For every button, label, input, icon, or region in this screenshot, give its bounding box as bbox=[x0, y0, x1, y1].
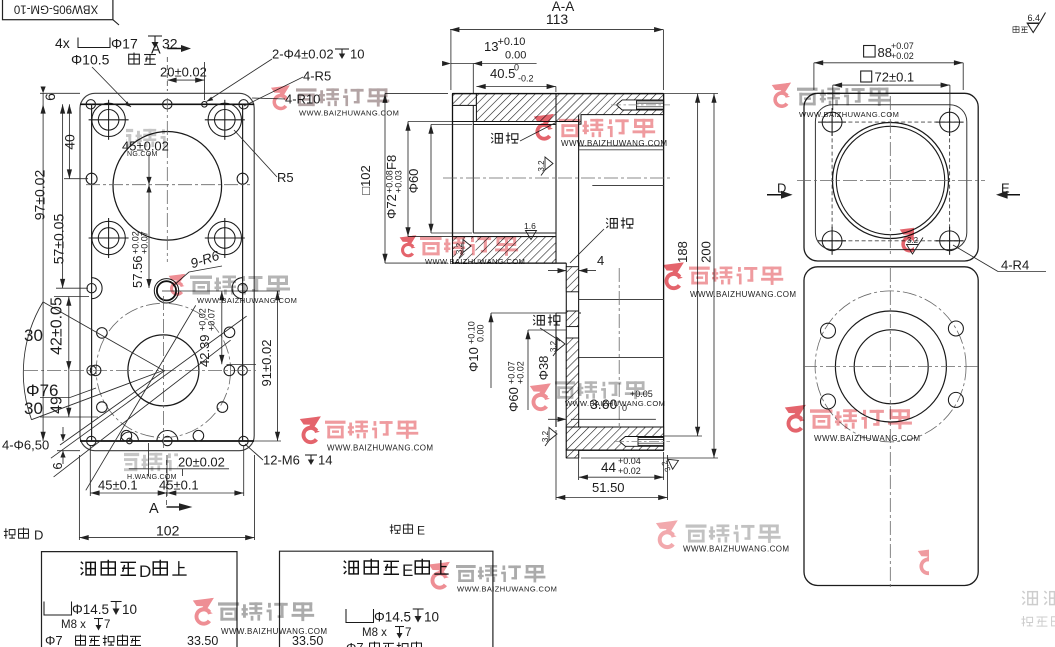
upper flange bbox=[804, 93, 978, 261]
57.56 vertical dim text bbox=[130, 231, 150, 288]
svg-text:XBW905-GM-10: XBW905-GM-10 bbox=[14, 3, 98, 15]
svg-text:Φ14.5: Φ14.5 bbox=[374, 610, 411, 625]
bottom edge holes bbox=[87, 436, 96, 445]
bottom hatch band w slot bbox=[566, 427, 663, 450]
svg-text:WWW.BAIZHUWANG.COM: WWW.BAIZHUWANG.COM bbox=[425, 257, 525, 266]
svg-text:A: A bbox=[149, 501, 159, 517]
bottom-left hatch block bbox=[453, 237, 557, 264]
svg-text:51.50: 51.50 bbox=[592, 480, 625, 495]
svg-text:Φ14.5: Φ14.5 bbox=[72, 602, 109, 617]
inner thick edges bbox=[80, 103, 254, 105]
svg-text:Φ38: Φ38 bbox=[536, 356, 551, 381]
left dims bbox=[42, 93, 44, 441]
svg-text:6: 6 bbox=[42, 93, 58, 101]
svg-text:10: 10 bbox=[424, 610, 439, 625]
svg-text:57.56: 57.56 bbox=[130, 255, 145, 288]
svg-text:WWW.BAIZHUWANG.COM: WWW.BAIZHUWANG.COM bbox=[561, 139, 667, 148]
svg-text:0: 0 bbox=[514, 63, 519, 73]
svg-text:20±0.02: 20±0.02 bbox=[160, 65, 207, 80]
svg-text:0.00: 0.00 bbox=[476, 324, 486, 342]
svg-text:4: 4 bbox=[597, 253, 604, 268]
svg-text:F8: F8 bbox=[384, 155, 399, 170]
lower-left angular dims bbox=[43, 302, 163, 371]
W2 bbox=[534, 114, 554, 141]
svg-text:Φ60: Φ60 bbox=[506, 387, 521, 412]
svg-text:WWW.BAIZHUWANG.COM: WWW.BAIZHUWANG.COM bbox=[221, 627, 327, 636]
svg-text:7: 7 bbox=[405, 627, 411, 639]
svg-text:WWW.BAIZHUWANG.COM: WWW.BAIZHUWANG.COM bbox=[799, 110, 899, 119]
left box bbox=[42, 552, 238, 647]
svg-text:WWW.BAIZHUWANG.COM: WWW.BAIZHUWANG.COM bbox=[327, 444, 433, 453]
svg-text:13: 13 bbox=[484, 39, 498, 54]
svg-text:WWW.BAIZHUWANG.COM: WWW.BAIZHUWANG.COM bbox=[197, 296, 297, 305]
W13 bbox=[429, 562, 450, 590]
diagonal leaders bbox=[51, 316, 247, 458]
top right hatch band w slot bbox=[556, 94, 664, 125]
svg-text:WWW.BAIZHUWANG.COM: WWW.BAIZHUWANG.COM bbox=[299, 109, 399, 118]
svg-text:Φ10.5: Φ10.5 bbox=[71, 52, 110, 68]
svg-text:NG.COM: NG.COM bbox=[127, 151, 158, 158]
svg-text:WWW.BAIZHUWANG.COM: WWW.BAIZHUWANG.COM bbox=[457, 585, 557, 594]
center hole double ring bbox=[154, 279, 178, 303]
svg-text:E: E bbox=[402, 561, 413, 580]
W5 bbox=[169, 274, 186, 296]
stem tip bbox=[566, 450, 578, 458]
svg-text:57±0.05: 57±0.05 bbox=[51, 214, 67, 265]
big upper circle bbox=[113, 132, 222, 241]
W14 light bbox=[656, 520, 678, 549]
svg-text:12-M6: 12-M6 bbox=[263, 453, 300, 468]
svg-text:3.2: 3.2 bbox=[537, 160, 546, 172]
svg-text:WWW.BAIZHUWANG.COM: WWW.BAIZHUWANG.COM bbox=[565, 399, 665, 408]
svg-text:+0.07: +0.07 bbox=[891, 41, 914, 51]
left dims of section bbox=[358, 165, 373, 195]
svg-text:WWW.BAIZHUWANG.COM: WWW.BAIZHUWANG.COM bbox=[814, 434, 920, 443]
svg-text:Φ7: Φ7 bbox=[346, 640, 364, 647]
top edge holes bbox=[86, 100, 95, 109]
svg-text:H.WANG.COM: H.WANG.COM bbox=[127, 474, 177, 481]
inner steps right bbox=[579, 145, 664, 147]
svg-text:40.5: 40.5 bbox=[490, 66, 515, 81]
outer outline bbox=[80, 93, 254, 450]
svg-text:+0.04: +0.04 bbox=[618, 456, 641, 466]
svg-text:6.4: 6.4 bbox=[1028, 13, 1041, 23]
W9 faint bbox=[118, 453, 214, 472]
red fragments bbox=[900, 227, 919, 252]
svg-text:-0.2: -0.2 bbox=[518, 74, 534, 84]
svg-text:4-R5: 4-R5 bbox=[303, 69, 331, 84]
right box bbox=[280, 551, 493, 647]
svg-text:Φ60: Φ60 bbox=[406, 169, 421, 194]
svg-text:42.39: 42.39 bbox=[197, 334, 212, 367]
right body verticals bbox=[555, 94, 557, 264]
lower circles bbox=[96, 303, 230, 437]
svg-text:D: D bbox=[34, 528, 43, 543]
svg-text:42±0.05: 42±0.05 bbox=[49, 297, 66, 355]
svg-text:+0.02: +0.02 bbox=[516, 361, 526, 384]
4-R4 bbox=[953, 245, 998, 272]
svg-text:E: E bbox=[417, 524, 425, 538]
svg-text:+0.02: +0.02 bbox=[618, 466, 641, 476]
W6 bbox=[400, 235, 417, 257]
svg-text:Φ7: Φ7 bbox=[45, 633, 63, 647]
svg-text:7: 7 bbox=[104, 619, 110, 631]
svg-text:WWW.BAIZHUWANG.COM: WWW.BAIZHUWANG.COM bbox=[683, 545, 789, 554]
svg-text:30: 30 bbox=[24, 326, 43, 345]
svg-text:+0.07: +0.07 bbox=[140, 231, 150, 254]
svg-text:88: 88 bbox=[878, 45, 892, 60]
svg-text:10: 10 bbox=[350, 47, 364, 62]
清根 labels bbox=[491, 123, 633, 342]
svg-text:72±0.1: 72±0.1 bbox=[875, 70, 915, 85]
svg-text:6: 6 bbox=[50, 462, 65, 469]
188/200 dims bbox=[664, 93, 718, 95]
svg-text:Φ17: Φ17 bbox=[111, 36, 138, 52]
W8 bbox=[300, 416, 321, 444]
svg-text:Φ72: Φ72 bbox=[384, 194, 399, 219]
svg-text:10: 10 bbox=[122, 602, 137, 617]
42.39 dim vertical bbox=[221, 291, 223, 364]
counterbores 4x bbox=[89, 100, 245, 258]
svg-text:0.00: 0.00 bbox=[505, 50, 526, 62]
svg-text:97±0.02: 97±0.02 bbox=[32, 170, 48, 221]
surface marks bbox=[455, 157, 681, 473]
8 small holes on bolt circle bbox=[90, 327, 235, 441]
activation watermark bbox=[1021, 591, 1055, 626]
91 dim right bbox=[277, 291, 279, 441]
title box bbox=[3, 0, 113, 20]
svg-text:40: 40 bbox=[62, 134, 78, 150]
其余 6.4 bbox=[1013, 26, 1028, 33]
svg-text:4-R4: 4-R4 bbox=[1001, 258, 1029, 273]
W3 bbox=[772, 83, 791, 108]
lower flange bbox=[804, 267, 978, 586]
svg-text:20±0.02: 20±0.02 bbox=[178, 455, 225, 470]
hatched top-left blocks bbox=[453, 94, 477, 106]
lower-left dims bbox=[466, 321, 486, 372]
W10 bbox=[530, 383, 551, 411]
svg-text:1.6: 1.6 bbox=[524, 221, 536, 231]
svg-text:2-Φ4±0.02: 2-Φ4±0.02 bbox=[272, 47, 334, 62]
stem wall hatch bbox=[566, 267, 578, 292]
svg-text:D: D bbox=[139, 562, 151, 581]
svg-text:200: 200 bbox=[699, 241, 714, 263]
svg-text:30: 30 bbox=[24, 399, 43, 418]
视图 D bbox=[4, 528, 29, 539]
svg-text:M8 x: M8 x bbox=[362, 627, 387, 639]
left/right edge holes bbox=[86, 173, 97, 184]
svg-text:+0.10: +0.10 bbox=[498, 36, 526, 48]
svg-text:44: 44 bbox=[601, 460, 617, 475]
W4 faint bbox=[112, 129, 208, 148]
svg-text:14: 14 bbox=[318, 453, 332, 468]
svg-text:113: 113 bbox=[546, 11, 569, 27]
svg-text:A: A bbox=[151, 42, 161, 58]
svg-text:WWW.BAIZHUWANG.COM: WWW.BAIZHUWANG.COM bbox=[690, 290, 796, 299]
svg-text:+0.07: +0.07 bbox=[207, 308, 217, 331]
W12 bbox=[193, 598, 214, 626]
svg-text:4x: 4x bbox=[55, 35, 70, 51]
svg-text:M8 x: M8 x bbox=[61, 619, 86, 631]
bore lines bbox=[453, 121, 557, 123]
svg-text:□102: □102 bbox=[358, 165, 373, 195]
svg-text:3.2: 3.2 bbox=[541, 430, 550, 442]
svg-text:R5: R5 bbox=[277, 170, 294, 185]
113 dim bbox=[450, 29, 663, 31]
svg-text:+0.02: +0.02 bbox=[891, 51, 914, 61]
dims bbox=[864, 46, 876, 58]
102 dim bbox=[78, 455, 80, 540]
svg-text:4-Φ6,50: 4-Φ6,50 bbox=[2, 438, 49, 453]
svg-text:91±0.02: 91±0.02 bbox=[259, 340, 274, 387]
svg-text:188: 188 bbox=[675, 241, 690, 263]
W11 bbox=[785, 405, 806, 433]
W7 bbox=[663, 262, 684, 290]
svg-text:3.2: 3.2 bbox=[549, 340, 558, 352]
视图 E bbox=[390, 523, 413, 533]
svg-text:+0.03: +0.03 bbox=[394, 170, 404, 193]
W1 bbox=[271, 85, 290, 110]
svg-text:Φ10: Φ10 bbox=[466, 347, 481, 372]
svg-text:33.50: 33.50 bbox=[187, 634, 218, 647]
svg-text:102: 102 bbox=[156, 523, 180, 539]
9-R6 label bbox=[189, 248, 222, 271]
